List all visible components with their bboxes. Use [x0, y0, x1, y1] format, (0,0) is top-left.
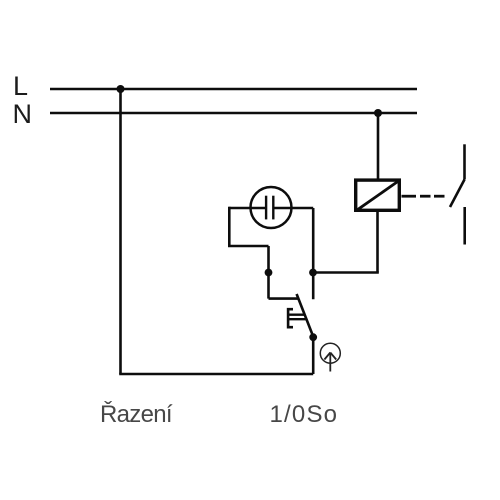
svg-text:L: L — [13, 71, 28, 101]
svg-text:Řazení: Řazení — [100, 401, 173, 428]
svg-text:1/0So: 1/0So — [270, 401, 339, 428]
svg-text:N: N — [13, 99, 33, 129]
